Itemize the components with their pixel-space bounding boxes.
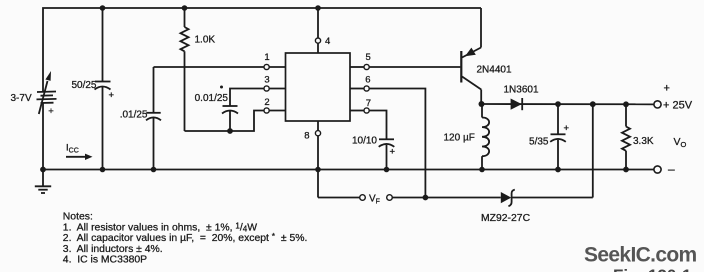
wire battery to ground rail	[42, 103, 44, 170]
svg-text:2: 2	[264, 97, 269, 108]
op-amp U1 MC3380P box	[286, 53, 351, 121]
pin 5	[350, 66, 364, 68]
svg-text:3: 3	[264, 75, 269, 86]
diode D1 1N3601	[511, 98, 523, 110]
svg-text:+: +	[48, 106, 54, 117]
pin 8	[317, 121, 319, 131]
svg-text:3-7V: 3-7V	[11, 93, 32, 104]
svg-text:+: +	[664, 82, 670, 94]
svg-text:0.01/25: 0.01/25	[195, 93, 229, 104]
capacitor C5 5/35	[550, 104, 566, 170]
pin 1	[264, 64, 269, 69]
pin 3	[264, 86, 269, 91]
svg-text:5: 5	[366, 52, 371, 63]
wire pin1 to C2	[154, 66, 265, 68]
svg-text:–: –	[668, 162, 675, 176]
wire R1 bottom to pin2	[185, 111, 265, 132]
svg-text:SeekIC.com: SeekIC.com	[584, 244, 697, 267]
svg-text:8: 8	[304, 131, 309, 142]
node VF terminal left	[360, 195, 366, 201]
wire VF to diode	[392, 197, 501, 199]
label asterisk	[220, 86, 223, 89]
svg-text:2. All capacitor values in µF: 2. All capacitor values in µF, = 20%, ex…	[63, 231, 308, 244]
junction top C1	[100, 5, 106, 11]
svg-text:10/10: 10/10	[352, 136, 377, 147]
svg-text:3. All inductors ± 4%.: 3. All inductors ± 4%.	[63, 244, 163, 255]
svg-text:+: +	[109, 90, 115, 101]
pin 7	[350, 110, 364, 112]
pin 4	[315, 5, 321, 11]
wire VF left	[318, 197, 360, 199]
wire collector drop	[480, 8, 482, 48]
svg-text:+ 25V: + 25V	[663, 100, 693, 112]
junction battery-rail	[40, 167, 46, 173]
svg-text:+: +	[390, 147, 396, 158]
junction bottom C1	[100, 167, 106, 173]
junction C5 bottom	[555, 167, 561, 173]
battery B1 3-7V (variable)	[37, 71, 57, 114]
svg-text:MZ92-27C: MZ92-27C	[481, 213, 531, 224]
svg-text:.01/25: .01/25	[120, 109, 148, 120]
wire output line	[482, 103, 654, 105]
label Icc current arrow	[66, 143, 93, 161]
junction top R1	[182, 5, 188, 11]
resistor R2 3.3K	[622, 104, 630, 169]
svg-text:1N3601: 1N3601	[504, 85, 539, 96]
capacitor C2 .01/25	[146, 67, 161, 170]
junction C5 top	[555, 101, 561, 107]
svg-text:5/35: 5/35	[529, 137, 549, 148]
svg-text:1: 1	[264, 52, 269, 63]
wire pin3 branch	[230, 89, 264, 107]
resistor R1 1.0K	[181, 8, 189, 131]
junction C3 bottom	[227, 128, 233, 134]
junction pin6 wire on VF line	[423, 195, 429, 201]
notes text	[63, 212, 308, 266]
svg-text:50/25: 50/25	[71, 80, 96, 91]
svg-text:2N4401: 2N4401	[477, 65, 512, 76]
svg-text:VO: VO	[674, 136, 687, 149]
svg-text:4. IC is MC3380P: 4. IC is MC3380P	[63, 254, 147, 265]
svg-text:3.3K: 3.3K	[633, 136, 654, 147]
junction feedback top	[590, 101, 596, 107]
svg-text:1. All resistor values in ohm: 1. All resistor values in ohms, ± 1%, 1/…	[63, 221, 257, 233]
svg-text:ICC: ICC	[66, 143, 79, 155]
wire feedback vertical	[592, 104, 594, 197]
svg-text:Notes:: Notes:	[63, 212, 93, 223]
inductor L1 120uF	[482, 104, 489, 170]
junction L1 bottom	[479, 167, 485, 173]
node +25V terminal	[654, 101, 661, 108]
capacitor C1 50/25	[95, 8, 111, 170]
ground	[35, 170, 51, 194]
node minus terminal	[654, 166, 661, 173]
junction R2 top	[623, 101, 629, 107]
svg-text:7: 7	[366, 98, 371, 109]
junction bottom C2	[151, 167, 157, 173]
junction R2 bottom	[623, 167, 629, 173]
transistor Q1 2N4401	[461, 48, 481, 105]
pin 2	[264, 108, 269, 113]
svg-text:6: 6	[365, 74, 370, 85]
node VF terminal right	[387, 195, 393, 201]
capacitor C3 0.01/25	[222, 106, 238, 131]
capacitor C4 10/10	[379, 139, 395, 169]
svg-text:+: +	[564, 123, 570, 134]
svg-text:Fig. 120-1: Fig. 120-1	[613, 266, 691, 272]
svg-text:1.0K: 1.0K	[195, 35, 216, 46]
wire top rail Vcc	[43, 8, 481, 92]
wire bottom ground rail	[43, 169, 654, 171]
wire diode to feedback	[512, 197, 593, 199]
diode D2 MZ92-27C zener	[501, 190, 515, 207]
svg-text:120 µF: 120 µF	[444, 133, 475, 144]
pin 6	[350, 88, 364, 90]
svg-text:VF: VF	[369, 194, 380, 206]
junction emitter node	[479, 101, 485, 107]
junction C4 bottom	[384, 167, 390, 173]
svg-text:4: 4	[325, 36, 330, 47]
